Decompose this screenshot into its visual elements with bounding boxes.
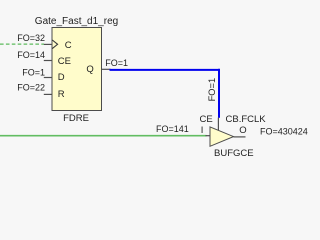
svg-text:FO=1: FO=1 bbox=[207, 78, 217, 102]
svg-text:D: D bbox=[58, 72, 65, 83]
pin stub O bbox=[234, 136, 246, 138]
svg-text:O: O bbox=[239, 125, 246, 136]
pin stub C bbox=[44, 43, 53, 45]
svg-text:FO=14: FO=14 bbox=[17, 50, 45, 60]
svg-text:CE: CE bbox=[200, 114, 213, 125]
svg-text:FO=32: FO=32 bbox=[17, 33, 45, 43]
wire clock net to pin C (dashed green) bbox=[0, 43, 44, 45]
svg-text:FO=141: FO=141 bbox=[156, 124, 189, 134]
pin stub D bbox=[44, 77, 53, 79]
svg-text:CB.FCLK: CB.FCLK bbox=[226, 114, 267, 125]
buffer U2 BUFGCE body bbox=[210, 127, 234, 146]
svg-text:BUFGCE: BUFGCE bbox=[214, 148, 254, 159]
svg-text:FO=1: FO=1 bbox=[22, 67, 45, 77]
svg-text:FO=430424: FO=430424 bbox=[260, 127, 308, 137]
pin stub Q bbox=[102, 68, 111, 70]
pin stub I bbox=[206, 135, 211, 137]
svg-text:C: C bbox=[65, 40, 72, 51]
wire Q net vertical segment (blue) bbox=[218, 69, 220, 118]
svg-text:FDRE: FDRE bbox=[63, 113, 89, 124]
svg-text:Gate_Fast_d1_reg: Gate_Fast_d1_reg bbox=[35, 16, 118, 27]
svg-text:FO=1: FO=1 bbox=[105, 58, 128, 68]
clock marker on pin C bbox=[52, 40, 57, 49]
wire Q net horizontal segment (blue) bbox=[110, 69, 221, 71]
wire I input net (green) bbox=[0, 135, 207, 137]
pin stub CE bbox=[44, 60, 53, 62]
pin stub CE of BUFGCE bbox=[217, 118, 219, 131]
svg-text:Q: Q bbox=[86, 64, 93, 75]
svg-text:CE: CE bbox=[58, 56, 71, 67]
svg-text:FO=22: FO=22 bbox=[17, 83, 45, 93]
flip-flop Gate_Fast_d1_reg body (FDRE) bbox=[52, 28, 102, 111]
svg-text:I: I bbox=[201, 125, 204, 136]
pin stub R bbox=[44, 93, 53, 95]
svg-text:R: R bbox=[58, 89, 65, 100]
